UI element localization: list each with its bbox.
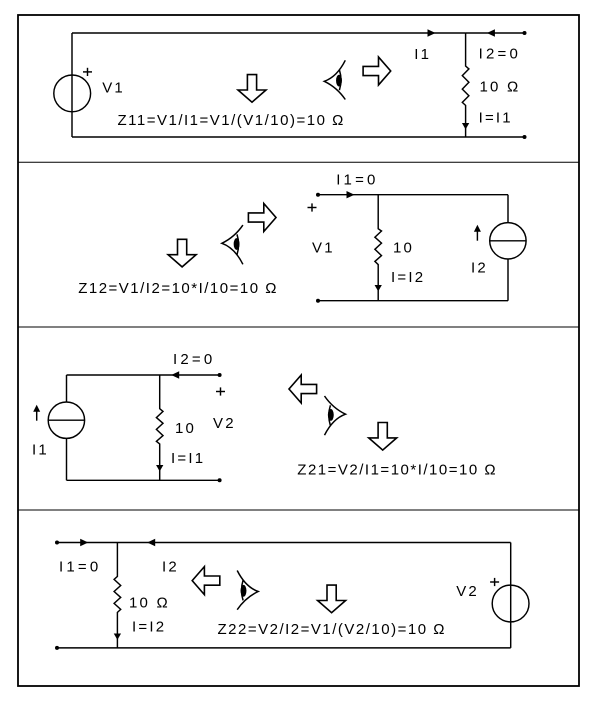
direction arrow of I1 xyxy=(33,405,40,421)
resistor R 10ohm panel4 xyxy=(114,543,121,648)
wire: panel3 bottom xyxy=(67,479,220,481)
eye symbol panel4 xyxy=(237,571,258,610)
svg-text:Z21=V2/I1=10*I/10=10 Ω: Z21=V2/I1=10*I/10=10 Ω xyxy=(297,462,497,479)
wire: source top lead panel2 xyxy=(507,195,509,223)
svg-text:I=I1: I=I1 xyxy=(479,109,513,126)
svg-text:V1: V1 xyxy=(102,80,125,97)
wire: panel1 left branch xyxy=(71,33,73,137)
svg-text:V1: V1 xyxy=(312,240,335,257)
svg-text:I1=0: I1=0 xyxy=(59,559,101,576)
current direction arrow I=I1 panel3 xyxy=(156,465,163,471)
svg-text:10: 10 xyxy=(393,240,414,257)
current source I2 xyxy=(490,223,526,259)
current direction arrow I=I2 xyxy=(375,285,382,291)
polarity plus of V2 panel3 xyxy=(216,387,225,395)
node: port1 - terminal panel4 xyxy=(55,646,59,650)
svg-text:I1: I1 xyxy=(414,46,431,63)
polarity plus of V2 panel4 xyxy=(490,578,499,586)
block arrow down panel2 xyxy=(168,239,196,267)
wire: panel3 top xyxy=(67,374,220,376)
wire: panel3 left bottom lead xyxy=(66,438,68,480)
wire: panel4 top xyxy=(57,542,511,544)
svg-text:10 Ω: 10 Ω xyxy=(480,79,521,96)
svg-text:I=I2: I=I2 xyxy=(391,269,425,286)
node: port1 + terminal panel2 xyxy=(316,193,320,197)
block arrow left panel4 xyxy=(192,567,220,595)
svg-text:I2: I2 xyxy=(471,260,488,277)
svg-text:V2: V2 xyxy=(213,415,236,432)
polarity plus of V1 xyxy=(83,68,92,76)
node: port1 + terminal panel4 xyxy=(55,541,59,545)
wire: panel1 top right stub xyxy=(466,32,525,34)
voltage source V1 xyxy=(54,75,91,112)
wire: panel3 left top lead xyxy=(66,375,68,402)
svg-text:I2: I2 xyxy=(162,559,179,576)
svg-text:10 Ω: 10 Ω xyxy=(129,595,170,612)
wire: panel4 right branch xyxy=(510,543,512,648)
svg-text:10: 10 xyxy=(175,420,196,437)
resistor R 10ohm panel3 xyxy=(156,375,163,480)
svg-text:V2: V2 xyxy=(456,583,479,600)
svg-text:I2=0: I2=0 xyxy=(479,46,521,63)
eye symbol panel3 xyxy=(325,396,346,435)
block arrow down panel4 xyxy=(318,585,346,613)
block arrow down panel1 xyxy=(238,75,266,103)
svg-text:I2=0: I2=0 xyxy=(173,351,215,368)
current arrow I2=0 panel3 xyxy=(171,371,179,378)
svg-text:I1=0: I1=0 xyxy=(336,171,378,188)
resistor R 10ohm panel2 xyxy=(375,195,382,301)
node: port2 - terminal xyxy=(523,135,527,139)
resistor R 10ohm panel1 xyxy=(462,33,469,137)
block arrow right panel2 xyxy=(248,204,276,232)
wire: source bottom lead panel2 xyxy=(507,259,509,301)
current arrow I1 xyxy=(428,29,436,36)
wire: panel4 bottom xyxy=(57,647,511,649)
voltage source V2 xyxy=(492,585,529,622)
block arrow right panel1 xyxy=(363,57,391,85)
node: port2 + terminal xyxy=(523,31,527,35)
node: port1 - terminal panel2 xyxy=(316,299,320,303)
node: port2 - terminal panel3 xyxy=(218,478,222,482)
svg-text:Z22=V2/I2=V1/(V2/10)=10 Ω: Z22=V2/I2=V1/(V2/10)=10 Ω xyxy=(218,621,446,638)
current source I1 xyxy=(48,402,84,438)
block arrow left panel3 xyxy=(289,375,317,403)
current direction arrow I=I1 xyxy=(462,123,469,129)
eye symbol panel1 xyxy=(324,60,345,99)
wire: panel2 bottom xyxy=(318,300,508,302)
svg-text:I=I2: I=I2 xyxy=(132,619,166,636)
current arrow I2 xyxy=(487,29,495,36)
wire: panel2 top xyxy=(318,194,508,196)
current arrow I1=0 panel4 xyxy=(80,539,88,546)
current direction arrow I=I2 panel4 xyxy=(114,634,121,640)
eye symbol panel2 xyxy=(222,225,243,264)
polarity plus of V1 panel2 xyxy=(308,203,317,211)
svg-text:I1: I1 xyxy=(32,442,49,459)
svg-text:I=I1: I=I1 xyxy=(171,450,205,467)
node: port2 + terminal panel3 xyxy=(218,373,222,377)
wire: panel1 bottom xyxy=(72,136,525,138)
current arrow I1=0 panel2 xyxy=(347,191,355,198)
block arrow down panel3 xyxy=(369,423,397,451)
current arrow I2 panel4 xyxy=(147,539,155,546)
svg-text:Z12=V1/I2=10*I/10=10 Ω: Z12=V1/I2=10*I/10=10 Ω xyxy=(78,280,278,297)
wire: panel1 top xyxy=(72,32,466,34)
svg-text:Z11=V1/I1=V1/(V1/10)=10 Ω: Z11=V1/I1=V1/(V1/10)=10 Ω xyxy=(118,112,345,129)
direction arrow of I2 xyxy=(474,225,481,241)
